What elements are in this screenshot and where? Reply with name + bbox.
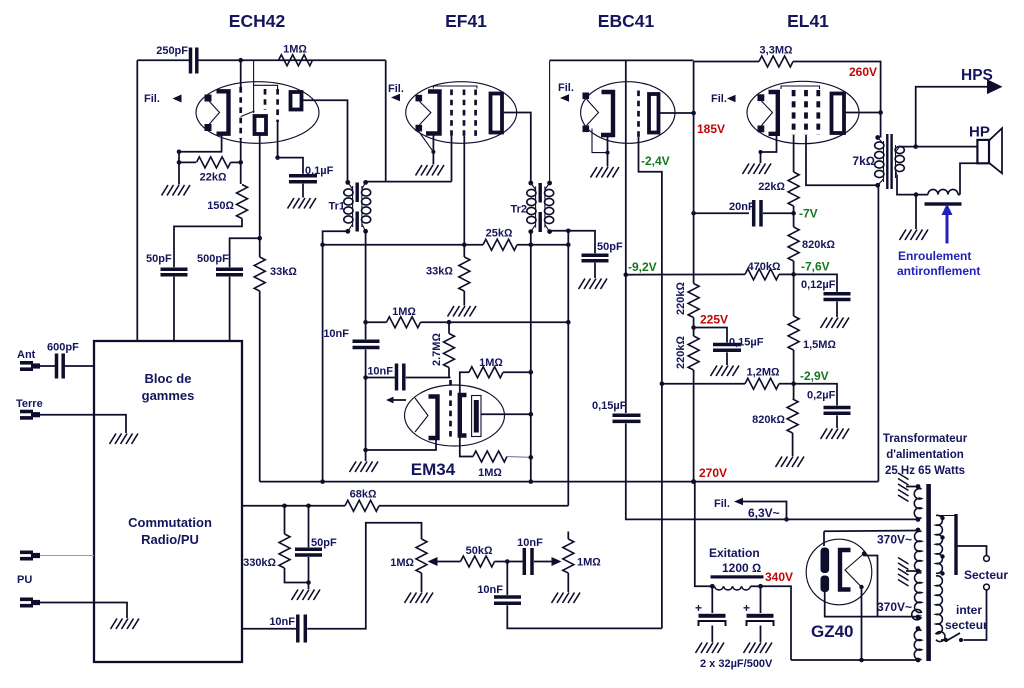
wire ground stub hum xyxy=(915,195,917,229)
capacitor 10nF AGC (left) xyxy=(353,340,380,344)
ECH42 triode plate xyxy=(255,116,267,134)
svg-text:Transformateur: Transformateur xyxy=(883,433,968,445)
svg-text:820kΩ: 820kΩ xyxy=(752,414,785,426)
wire speaker return xyxy=(960,163,977,194)
pot wiper arrow xyxy=(437,561,461,563)
svg-text:340V: 340V xyxy=(765,570,793,584)
EBC41 filament squares xyxy=(583,93,590,100)
wire grid1 stem xyxy=(240,60,242,88)
svg-text:50pF: 50pF xyxy=(311,537,337,549)
capacitor 0,12uF xyxy=(824,292,851,296)
wire AVC bus y=505.8 xyxy=(242,505,345,507)
wire HT center tap to ground xyxy=(906,570,918,572)
ground 1M pot right xyxy=(552,593,581,604)
svg-text:-2,4V: -2,4V xyxy=(641,154,670,168)
svg-text:260V: 260V xyxy=(849,65,877,79)
svg-text:Fil.: Fil. xyxy=(388,83,404,95)
ground 50pF detector xyxy=(579,279,608,290)
svg-text:inter: inter xyxy=(956,603,982,617)
svg-text:150Ω: 150Ω xyxy=(207,200,234,212)
resistor 1M EM34 lower xyxy=(473,451,507,462)
ECH42 heptode plate xyxy=(291,92,302,110)
svg-text:25 Hz 65 Watts: 25 Hz 65 Watts xyxy=(885,465,965,477)
wire 10nF to right pot arrow xyxy=(534,561,552,563)
wire choke to 270V rail xyxy=(695,482,713,587)
svg-text:Tr2: Tr2 xyxy=(510,204,527,216)
wire 0,12uF branch xyxy=(794,274,837,291)
wire 50pF to bloc xyxy=(173,277,175,341)
svg-text:820kΩ: 820kΩ xyxy=(802,239,835,251)
svg-text:+: + xyxy=(695,601,702,615)
wire 220k lower to 270V xyxy=(693,370,695,482)
capacitor 10nF EM34 grid xyxy=(395,364,399,391)
svg-text:Radio/PU: Radio/PU xyxy=(141,532,199,547)
wire Tr2 primary bottom down to EM34 rail xyxy=(530,232,532,482)
svg-text:1MΩ: 1MΩ xyxy=(283,44,307,56)
EM34 cathode bracket xyxy=(429,397,438,439)
wire triode plate down xyxy=(259,134,261,257)
wire 1,2M line y=383.7 xyxy=(662,383,745,385)
svg-text:220kΩ: 220kΩ xyxy=(675,282,687,315)
wire 1,5M to -2,9V node xyxy=(793,350,795,399)
power transformer core xyxy=(926,484,931,661)
svg-text:68kΩ: 68kΩ xyxy=(350,489,377,501)
EL41 plate xyxy=(832,94,845,134)
svg-text:1MΩ: 1MΩ xyxy=(478,467,502,479)
ECH42 filament squares xyxy=(205,95,212,102)
resistor 3,3M xyxy=(759,56,793,67)
GZ40 filament bar 1 xyxy=(821,548,830,574)
ground 0,2uF xyxy=(821,429,850,440)
svg-text:25kΩ: 25kΩ xyxy=(486,228,513,240)
wire EL41 plate xyxy=(843,112,881,114)
wire Tr1 secondary top to EF41 grid xyxy=(366,181,452,183)
svg-text:270V: 270V xyxy=(699,466,727,480)
svg-text:6,3V~: 6,3V~ xyxy=(748,506,780,520)
wire AGC to x568 xyxy=(421,321,569,323)
EL41 grid1 dashes xyxy=(792,90,796,135)
tube GZ40 envelope xyxy=(806,539,872,605)
wire 0,15uF ground xyxy=(726,352,728,365)
ground EM34 cathode rail xyxy=(350,462,379,473)
ECH42 grid dashes g4 xyxy=(276,89,279,122)
terminal Terre xyxy=(20,410,40,420)
capacitor 10nF shunt xyxy=(506,562,508,596)
EL41 filament xyxy=(762,101,773,125)
wire fil1 to ground xyxy=(906,486,918,488)
svg-text:Ant: Ant xyxy=(17,349,36,361)
resistor 220k lower (vertical) xyxy=(688,336,699,370)
wire PU coupling y=628.8 xyxy=(242,628,298,630)
EF41 filament squares xyxy=(416,95,423,102)
resistor 22k xyxy=(179,161,196,163)
wire 470k to node xyxy=(779,273,794,275)
svg-text:0,15µF: 0,15µF xyxy=(729,337,764,349)
wire 68k to x568 xyxy=(379,505,568,507)
wire EM34 grid2 up to 1M xyxy=(460,372,469,395)
ECH42 grid dashes g2 xyxy=(264,89,267,110)
EF41 cathode xyxy=(426,92,440,134)
wire 370V upper xyxy=(824,530,918,533)
excitation choke xyxy=(710,575,764,590)
EM34 right grid bracket xyxy=(460,395,467,436)
wire GZ40 plate to lower 370V xyxy=(864,554,878,617)
resistor 820k lower (vertical) xyxy=(787,399,798,433)
wire EL41 top line y=61.5 xyxy=(694,61,759,63)
wire B+ riser to output transformer xyxy=(877,185,879,481)
resistor 470k xyxy=(745,269,779,280)
power transformer winding fil1 xyxy=(914,484,921,522)
wire EF41 plate to Tr2 xyxy=(504,113,531,184)
svg-text:EF41: EF41 xyxy=(445,11,487,31)
wire 50pF AVC to ground xyxy=(308,557,310,589)
node osc grid xyxy=(238,58,243,63)
wire 10nF PU to pot xyxy=(307,523,421,629)
ground 820k lower xyxy=(776,457,805,468)
svg-text:330kΩ: 330kΩ xyxy=(243,557,276,569)
capacitor 50pF AVC xyxy=(308,506,310,548)
svg-text:-7,6V: -7,6V xyxy=(801,260,830,274)
EM34 target outer xyxy=(472,396,481,437)
wire 22k to -7V node xyxy=(793,206,795,227)
resistor 150 (vertical) xyxy=(237,185,248,219)
svg-text:Terre: Terre xyxy=(16,398,43,410)
wire Secteur lower to switch xyxy=(964,590,987,640)
ground 1M pot left xyxy=(405,593,434,604)
wire secondary top to speaker xyxy=(900,146,978,148)
HPS arrow xyxy=(987,79,1003,94)
ground EF41 cathode xyxy=(416,165,445,176)
wire ECH42 cathode xyxy=(179,134,222,185)
wire HPS xyxy=(916,87,988,147)
terminal PU upper xyxy=(20,551,40,561)
resistor 1M AGC xyxy=(387,317,421,328)
wire 33k to 270V rail xyxy=(259,291,261,482)
capacitor 20nF xyxy=(752,200,756,227)
svg-text:185V: 185V xyxy=(697,122,725,136)
svg-text:Secteur: Secteur xyxy=(964,568,1008,582)
wire EF41 cathode to ground xyxy=(432,136,434,165)
wire 150 bottom to 50pF xyxy=(174,219,242,268)
svg-text:GZ40: GZ40 xyxy=(811,622,854,641)
ground hum coil xyxy=(900,230,929,241)
capacitor 10nF series xyxy=(523,548,527,575)
speaker HP xyxy=(977,128,1002,173)
capacitor 10nF PU xyxy=(296,615,300,643)
wire 370V lower xyxy=(825,592,918,617)
wire EL41 cathode ground xyxy=(761,134,777,163)
wire EL41 grid1 to 22k xyxy=(793,135,795,172)
wire AGC cap down xyxy=(365,350,367,462)
wire selector to Secteur xyxy=(956,546,987,556)
wire volume feed x=568 xyxy=(567,231,569,506)
EF41 grid2 dashes xyxy=(463,90,466,137)
wire 340V to bottom xyxy=(761,586,792,660)
svg-text:20nF: 20nF xyxy=(729,201,755,213)
power transformer winding HT2 xyxy=(912,573,922,620)
svg-text:470kΩ: 470kΩ xyxy=(748,261,781,273)
svg-text:1MΩ: 1MΩ xyxy=(392,306,416,318)
svg-text:10nF: 10nF xyxy=(517,537,543,549)
wire 3,3M to plate node xyxy=(793,62,881,138)
wire: left drop to bloc xyxy=(136,60,138,341)
resistor 330k (vertical) xyxy=(284,506,286,534)
svg-text:ECH42: ECH42 xyxy=(229,11,286,31)
Secteur contact circles xyxy=(984,556,990,562)
ground PU xyxy=(111,619,140,630)
wire bottom fil line xyxy=(791,659,918,661)
svg-text:1,2MΩ: 1,2MΩ xyxy=(747,367,780,379)
svg-text:7kΩ: 7kΩ xyxy=(852,154,875,168)
wire 1M lower to rail xyxy=(507,456,531,459)
wire Ant to bloc xyxy=(40,365,57,367)
tube EBC41 envelope xyxy=(581,82,675,144)
svg-text:1MΩ: 1MΩ xyxy=(479,357,503,369)
wire screen feed y=244.8 xyxy=(323,244,483,246)
resistor 1,5M (vertical) xyxy=(788,316,799,350)
svg-text:Fil.: Fil. xyxy=(711,93,727,105)
svg-text:0,1µF: 0,1µF xyxy=(305,165,334,177)
svg-text:-9,2V: -9,2V xyxy=(628,260,657,274)
wire 10nF to EM34 grid xyxy=(406,377,451,379)
svg-text:0,12µF: 0,12µF xyxy=(801,279,836,291)
svg-text:22kΩ: 22kΩ xyxy=(200,172,227,184)
wire 500pF node xyxy=(230,238,260,267)
wire 820k lower to ground xyxy=(792,433,794,456)
EBC41 plate xyxy=(649,94,659,133)
svg-text:antironflement: antironflement xyxy=(897,264,980,278)
svg-text:Fil.: Fil. xyxy=(714,498,730,510)
capacitor 500pF xyxy=(216,268,243,272)
svg-text:0,15µF: 0,15µF xyxy=(592,400,627,412)
power transformer winding HT1 xyxy=(915,528,922,574)
capacitor 250pF xyxy=(189,48,193,74)
ECH42 internal grid link xyxy=(241,111,255,117)
wire hum coil to speaker xyxy=(958,194,960,196)
wire EBC41 diode to AVC line xyxy=(639,137,662,628)
wire 0,15uF bias line x=625.8 xyxy=(625,275,627,413)
resistor 68k xyxy=(345,500,379,511)
capacitor 600pF xyxy=(55,354,59,379)
transformer Tr2 xyxy=(527,181,554,234)
GZ40 diode wires xyxy=(845,554,864,588)
ground HT center (rotated) xyxy=(898,558,909,587)
svg-text:1200 Ω: 1200 Ω xyxy=(722,561,761,575)
wire bias cap to 6,3V line xyxy=(626,423,918,519)
svg-text:250pF: 250pF xyxy=(156,45,188,57)
potentiometer 1M right (vertical) xyxy=(567,532,569,540)
svg-text:Fil.: Fil. xyxy=(144,93,160,105)
svg-text:HP: HP xyxy=(969,124,990,141)
wire 220k junction 225V xyxy=(693,318,695,337)
wire 20nF coupling y=213.2 xyxy=(694,212,749,214)
EL41 cathode xyxy=(769,92,778,134)
wire screen stem xyxy=(278,122,303,174)
svg-text:EL41: EL41 xyxy=(787,11,829,31)
ground filter cap 1 xyxy=(696,643,725,654)
svg-text:Enroulement: Enroulement xyxy=(898,249,971,263)
wire: oscillator top line y=60 xyxy=(137,59,190,61)
ground Terre xyxy=(110,434,139,445)
resistor 33k (EF41 screen, vertical) xyxy=(459,257,470,291)
svg-text:22kΩ: 22kΩ xyxy=(758,181,785,193)
capacitor 50pF xyxy=(161,268,188,272)
EM34 filament xyxy=(415,398,428,432)
svg-text:600pF: 600pF xyxy=(47,342,79,354)
wire -9,2V bias line xyxy=(626,273,745,275)
svg-text:Exitation: Exitation xyxy=(709,546,760,560)
wire 330k bottom xyxy=(285,568,309,583)
wire EBC41 plate xyxy=(659,112,694,114)
GZ40 filament bar 2 xyxy=(821,576,830,593)
svg-text:2.7MΩ: 2.7MΩ xyxy=(431,333,443,366)
capacitor 0,15uF bias xyxy=(613,413,641,417)
svg-text:33kΩ: 33kΩ xyxy=(426,266,453,278)
wire Tr1 secondary bottom down (AGC line) xyxy=(365,231,367,339)
svg-text:50pF: 50pF xyxy=(146,253,172,265)
ground EF41 screen xyxy=(448,306,477,317)
ground 0,15uF divider xyxy=(711,366,740,377)
capacitor 0,1uF xyxy=(289,174,317,178)
capacitor 0,2uF xyxy=(824,406,851,410)
ground fil1 (rotated) xyxy=(898,473,909,502)
ECH42 triode cathode xyxy=(217,91,229,133)
EBC41 filament xyxy=(587,99,599,125)
wire EL41 screen to transformer bottom xyxy=(806,135,878,185)
EF41 screen strap xyxy=(433,86,477,89)
svg-text:220kΩ: 220kΩ xyxy=(675,336,687,369)
svg-text:-2,9V: -2,9V xyxy=(800,369,829,383)
ECH42 grid1 dashes xyxy=(239,87,242,139)
transformer Tr1 xyxy=(344,180,371,234)
capacitor 0,15uF divider xyxy=(713,343,741,347)
svg-text:+: + xyxy=(743,601,750,615)
wire secondary bottom xyxy=(897,175,928,195)
EM34 target screen xyxy=(474,400,479,433)
EL41 grid2 dashes xyxy=(804,90,808,135)
svg-text:10nF: 10nF xyxy=(323,328,349,340)
svg-text:1MΩ: 1MΩ xyxy=(390,557,414,569)
svg-text:10nF: 10nF xyxy=(269,616,295,628)
resistor 1M (osc grid leak) xyxy=(279,55,313,66)
EF41 grid1 dashes xyxy=(450,90,453,137)
svg-text:225V: 225V xyxy=(700,313,728,327)
wire 50k to 10nF xyxy=(495,561,525,563)
svg-text:HPS: HPS xyxy=(961,67,993,84)
svg-text:0,2µF: 0,2µF xyxy=(807,390,836,402)
wire Terre to ground xyxy=(40,415,126,433)
inter secteur switch xyxy=(959,638,963,642)
resistor 25k xyxy=(483,239,517,250)
filter cap 1 xyxy=(695,586,726,642)
wire 820k to -7,6V node xyxy=(793,261,795,316)
wire: right drop to Tr1 secondary xyxy=(385,60,387,181)
resistor 220k upper (vertical) xyxy=(688,284,699,318)
hum coil enroulement xyxy=(925,189,962,205)
blue arrow antironflement xyxy=(946,212,949,244)
wire 20nF to grid node xyxy=(763,212,794,214)
wire EM34 grid2 bottom to 1M lower xyxy=(460,436,473,457)
wire PU upper xyxy=(40,555,94,557)
svg-text:Fil.: Fil. xyxy=(558,82,574,94)
svg-text:500pF: 500pF xyxy=(197,253,229,265)
wire screen strap top stub xyxy=(253,60,255,85)
filter cap 2 xyxy=(743,586,774,642)
ground 0,12uF xyxy=(821,318,850,329)
ECH42 filament xyxy=(209,101,220,125)
resistor 50k xyxy=(461,556,495,567)
tube EM34 envelope xyxy=(405,385,505,446)
wire 1M to rail x530 xyxy=(503,371,531,373)
ground 330k/50pF xyxy=(292,590,321,601)
wire 0,2uF ground xyxy=(836,415,838,428)
potentiometer 1M volume left (vertical) xyxy=(416,539,427,573)
EBC41 grid line xyxy=(625,60,627,274)
svg-text:370V~: 370V~ xyxy=(877,533,912,547)
wire EBC41 plate rail x=693.6 xyxy=(693,62,695,284)
svg-text:1,5MΩ: 1,5MΩ xyxy=(803,339,836,351)
EL41 filament squares xyxy=(758,94,765,101)
terminal PU lower xyxy=(20,598,40,608)
EF41 filament xyxy=(420,101,431,124)
power transformer winding fil2 xyxy=(914,626,921,662)
GZ40 plate bracket xyxy=(840,550,851,590)
resistor 1M EM34 upper xyxy=(469,367,503,378)
resistor 820k (vertical) xyxy=(788,227,799,261)
EL41 screen strap xyxy=(781,86,820,89)
wire AGC top y=322 xyxy=(366,321,387,323)
svg-text:Bloc de: Bloc de xyxy=(145,371,192,386)
wire PU lower to ground xyxy=(40,603,127,619)
wire 25k to x568 xyxy=(517,244,568,246)
svg-text:Tr1: Tr1 xyxy=(328,201,345,213)
svg-text:10nF: 10nF xyxy=(367,366,393,378)
wire 0,15uF branch xyxy=(694,328,727,343)
bloc de gammes box xyxy=(94,341,242,662)
ground EL41 cathode xyxy=(743,164,772,175)
svg-text:2 x 32µF/500V: 2 x 32µF/500V xyxy=(700,658,773,670)
mains selector bar xyxy=(954,514,957,575)
svg-text:d'alimentation: d'alimentation xyxy=(886,449,964,461)
power transformer secondary loops xyxy=(936,515,955,641)
wire 10nF shunt to AVC line xyxy=(507,605,662,628)
wire 33k screen to ground xyxy=(463,291,465,306)
wire top line EBC41 y=60.4 xyxy=(550,59,694,61)
tube ECH42 envelope xyxy=(196,82,319,144)
EBC41 diode dashes xyxy=(637,91,640,138)
terminal Ant xyxy=(20,361,40,371)
svg-text:370V~: 370V~ xyxy=(877,600,912,614)
wire EBC41 cathode ground xyxy=(607,135,609,167)
tube EL41 envelope xyxy=(747,81,859,143)
tube EF41 envelope xyxy=(406,82,517,144)
wire EM34 grid y=377.5 xyxy=(366,377,397,379)
svg-text:50kΩ: 50kΩ xyxy=(466,545,493,557)
output transformer 7k xyxy=(875,134,905,189)
wire EM34 target plate xyxy=(481,413,531,415)
svg-text:33kΩ: 33kΩ xyxy=(270,266,297,278)
wire 0,12uF ground xyxy=(836,302,838,318)
wire 270V rail y=481.6 xyxy=(260,481,879,483)
wire heptode plate to Tr1 xyxy=(302,100,348,181)
capacitor 50pF detector xyxy=(582,254,609,258)
svg-text:Commutation: Commutation xyxy=(128,515,212,530)
svg-text:3,3MΩ: 3,3MΩ xyxy=(760,45,793,57)
wire GZ40 cathode down xyxy=(861,587,863,660)
wire EM34 cathode to ground rail xyxy=(366,438,436,450)
EM34 grid dashes xyxy=(449,380,452,437)
wire Tr2 secondary bottom (detector) xyxy=(550,231,595,254)
